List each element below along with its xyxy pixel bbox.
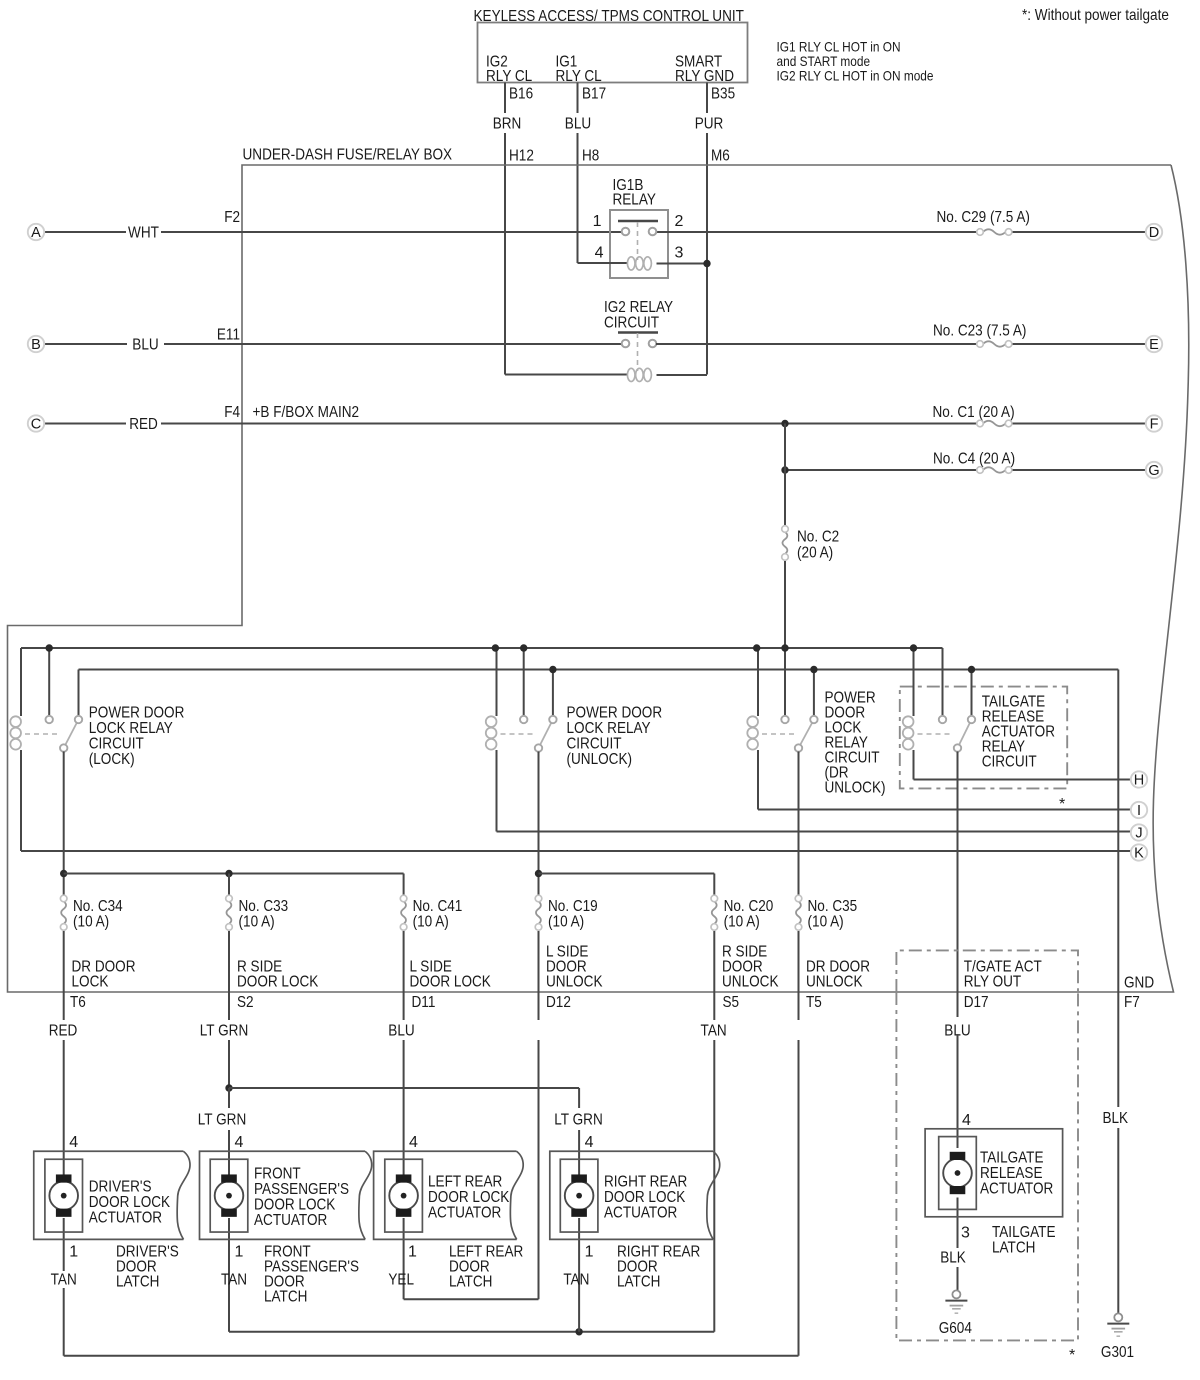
svg-text:B: B: [31, 337, 41, 353]
svg-text:(10 A): (10 A): [73, 914, 109, 931]
svg-text:BLK: BLK: [1103, 1110, 1129, 1127]
svg-text:1: 1: [593, 213, 602, 230]
svg-text:POWER DOOR: POWER DOOR: [567, 705, 663, 722]
svg-text:CIRCUIT: CIRCUIT: [89, 736, 144, 753]
svg-text:ACTUATOR: ACTUATOR: [604, 1205, 677, 1222]
svg-text:D: D: [1149, 225, 1159, 241]
svg-text:LOCK RELAY: LOCK RELAY: [567, 720, 651, 737]
svg-text:DOOR LOCK: DOOR LOCK: [237, 974, 319, 991]
svg-text:CIRCUIT: CIRCUIT: [604, 315, 659, 332]
svg-text:M6: M6: [711, 148, 730, 165]
svg-text:YEL: YEL: [388, 1272, 414, 1289]
svg-text:J: J: [1135, 826, 1142, 842]
svg-text:ACTUATOR: ACTUATOR: [428, 1205, 501, 1222]
svg-text:G301: G301: [1101, 1344, 1134, 1361]
svg-text:DOOR LOCK: DOOR LOCK: [410, 974, 492, 991]
svg-text:F2: F2: [224, 209, 240, 226]
svg-text:LATCH: LATCH: [992, 1240, 1035, 1257]
svg-text:LT GRN: LT GRN: [200, 1023, 249, 1040]
svg-text:DOOR LOCK: DOOR LOCK: [254, 1197, 336, 1214]
svg-text:1: 1: [408, 1244, 417, 1261]
svg-text:LATCH: LATCH: [449, 1274, 492, 1291]
svg-text:F4: F4: [224, 404, 240, 421]
svg-text:(LOCK): (LOCK): [89, 751, 135, 768]
svg-text:E: E: [1149, 337, 1159, 353]
svg-text:ACTUATOR: ACTUATOR: [254, 1212, 327, 1229]
svg-text:No. C4 (20 A): No. C4 (20 A): [933, 451, 1015, 468]
svg-text:FRONT: FRONT: [254, 1166, 301, 1183]
svg-text:RED: RED: [129, 416, 158, 433]
svg-text:LATCH: LATCH: [617, 1274, 660, 1291]
svg-text:RELAY: RELAY: [613, 192, 657, 209]
svg-text:UNLOCK: UNLOCK: [546, 974, 603, 991]
svg-text:+B F/BOX MAIN2: +B F/BOX MAIN2: [253, 404, 360, 421]
svg-text:DRIVER'S: DRIVER'S: [89, 1179, 152, 1196]
svg-text:UNLOCK: UNLOCK: [722, 974, 779, 991]
svg-text:TAILGATE: TAILGATE: [980, 1150, 1044, 1167]
svg-text:D12: D12: [546, 994, 571, 1011]
svg-text:(UNLOCK): (UNLOCK): [567, 751, 633, 768]
svg-text:I: I: [1137, 803, 1141, 819]
svg-text:IG2 RELAY: IG2 RELAY: [604, 299, 673, 316]
svg-text:BLK: BLK: [940, 1250, 966, 1267]
svg-text:A: A: [31, 225, 41, 241]
svg-text:TAN: TAN: [563, 1272, 589, 1289]
svg-text:TAN: TAN: [701, 1023, 727, 1040]
svg-text:BRN: BRN: [493, 116, 522, 133]
svg-text:C: C: [31, 417, 41, 433]
svg-text:G: G: [1148, 463, 1159, 479]
svg-text:T5: T5: [806, 994, 822, 1011]
svg-text:IG2 RLY CL HOT in ON mode: IG2 RLY CL HOT in ON mode: [777, 68, 934, 84]
svg-text:*: *: [1069, 1347, 1075, 1364]
svg-text:(20 A): (20 A): [797, 545, 833, 562]
svg-text:PASSENGER'S: PASSENGER'S: [254, 1181, 349, 1198]
svg-text:DOOR LOCK: DOOR LOCK: [428, 1189, 510, 1206]
svg-text:4: 4: [409, 1134, 418, 1151]
svg-text:BLU: BLU: [388, 1023, 414, 1040]
svg-text:B17: B17: [582, 86, 606, 103]
svg-text:1: 1: [235, 1244, 244, 1261]
svg-text:TAN: TAN: [51, 1272, 77, 1289]
svg-text:4: 4: [69, 1134, 78, 1151]
svg-text:LATCH: LATCH: [116, 1274, 159, 1291]
svg-text:TAN: TAN: [221, 1272, 247, 1289]
svg-text:CIRCUIT: CIRCUIT: [567, 736, 622, 753]
svg-text:No. C29 (7.5 A): No. C29 (7.5 A): [937, 209, 1030, 226]
svg-text:E11: E11: [217, 327, 240, 344]
svg-text:UNLOCK): UNLOCK): [825, 780, 886, 797]
svg-text:TAILGATE: TAILGATE: [992, 1224, 1056, 1241]
svg-text:(10 A): (10 A): [548, 914, 584, 931]
svg-text:1: 1: [69, 1244, 78, 1261]
svg-text:UNLOCK: UNLOCK: [806, 974, 863, 991]
svg-text:No. C33: No. C33: [239, 898, 289, 915]
svg-text:S2: S2: [237, 994, 254, 1011]
svg-text:3: 3: [675, 245, 684, 262]
svg-text:RIGHT REAR: RIGHT REAR: [604, 1174, 687, 1191]
svg-text:LT GRN: LT GRN: [198, 1112, 247, 1129]
svg-text:4: 4: [962, 1112, 971, 1129]
svg-text:No. C20: No. C20: [724, 898, 774, 915]
svg-text:POWER DOOR: POWER DOOR: [89, 705, 185, 722]
svg-text:CIRCUIT: CIRCUIT: [982, 754, 1037, 771]
svg-text:BLU: BLU: [132, 337, 158, 354]
svg-text:F7: F7: [1124, 994, 1140, 1011]
svg-text:RLY CL: RLY CL: [486, 68, 532, 85]
svg-text:No. C34: No. C34: [73, 898, 123, 915]
svg-text:RED: RED: [49, 1023, 78, 1040]
svg-text:B35: B35: [711, 86, 735, 103]
svg-text:DOOR LOCK: DOOR LOCK: [89, 1194, 171, 1211]
svg-text:RLY GND: RLY GND: [675, 68, 734, 85]
svg-text:No. C1 (20 A): No. C1 (20 A): [933, 404, 1015, 421]
svg-text:BLU: BLU: [565, 116, 591, 133]
svg-text:GND: GND: [1124, 975, 1154, 992]
svg-text:ACTUATOR: ACTUATOR: [980, 1181, 1053, 1198]
svg-text:(10 A): (10 A): [724, 914, 760, 931]
svg-text:No. C23 (7.5 A): No. C23 (7.5 A): [933, 323, 1026, 340]
svg-text:(10 A): (10 A): [808, 914, 844, 931]
svg-text:D17: D17: [964, 994, 989, 1011]
svg-text:LOCK: LOCK: [72, 974, 109, 991]
svg-text:3: 3: [961, 1225, 970, 1242]
svg-text:No. C41: No. C41: [413, 898, 463, 915]
svg-text:LATCH: LATCH: [264, 1289, 307, 1306]
svg-text:H: H: [1134, 773, 1144, 789]
svg-text:RELEASE: RELEASE: [980, 1165, 1043, 1182]
svg-text:1: 1: [585, 1244, 594, 1261]
svg-text:B16: B16: [509, 86, 533, 103]
svg-text:RLY CL: RLY CL: [556, 68, 602, 85]
svg-text:ACTUATOR: ACTUATOR: [89, 1210, 162, 1227]
svg-text:4: 4: [595, 245, 604, 262]
svg-text:RLY OUT: RLY OUT: [964, 974, 1022, 991]
svg-text:LOCK RELAY: LOCK RELAY: [89, 720, 173, 737]
svg-text:G604: G604: [939, 1320, 972, 1337]
svg-text:2: 2: [675, 213, 684, 230]
svg-text:WHT: WHT: [128, 225, 159, 242]
svg-text:No. C35: No. C35: [808, 898, 858, 915]
svg-text:H8: H8: [582, 148, 599, 165]
svg-text:4: 4: [585, 1134, 594, 1151]
svg-text:PUR: PUR: [695, 116, 724, 133]
svg-text:LEFT REAR: LEFT REAR: [428, 1174, 502, 1191]
svg-text:4: 4: [235, 1134, 244, 1151]
svg-text:T6: T6: [70, 994, 86, 1011]
svg-text:LT GRN: LT GRN: [554, 1112, 603, 1129]
svg-text:*: Without power tailgate: *: Without power tailgate: [1022, 7, 1169, 24]
svg-text:UNDER-DASH FUSE/RELAY BOX: UNDER-DASH FUSE/RELAY BOX: [243, 147, 453, 164]
svg-text:(10 A): (10 A): [239, 914, 275, 931]
svg-text:S5: S5: [723, 994, 740, 1011]
svg-text:K: K: [1134, 846, 1144, 862]
svg-text:No. C19: No. C19: [548, 898, 598, 915]
svg-text:DOOR LOCK: DOOR LOCK: [604, 1189, 686, 1206]
svg-text:No. C2: No. C2: [797, 529, 839, 546]
svg-text:H12: H12: [509, 148, 534, 165]
svg-text:(10 A): (10 A): [413, 914, 449, 931]
svg-text:D11: D11: [412, 994, 436, 1011]
svg-text:F: F: [1150, 417, 1159, 433]
